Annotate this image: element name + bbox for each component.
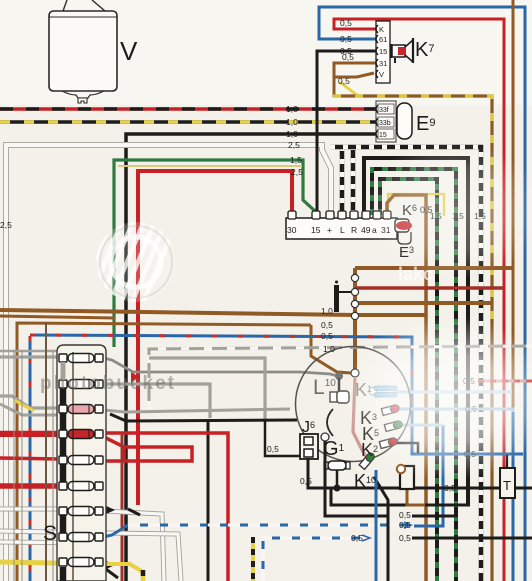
wire red feed to fuse 6	[0, 483, 60, 489]
fuse S8	[59, 533, 67, 541]
wire grey/white striped 1.0 across to right edge	[149, 346, 532, 409]
connector terminal 31	[383, 211, 391, 219]
svg-text:31: 31	[379, 59, 387, 68]
wire red/white dashed 0.5 at y381	[478, 380, 532, 383]
connector terminal +	[326, 211, 334, 219]
K7 pin K	[376, 25, 378, 33]
wire blue elbow from light blue drop	[414, 425, 443, 526]
lamp L10	[330, 392, 337, 402]
wire brown 0.5 branch right at y302	[355, 301, 492, 305]
wire grey horizontal from fuse 1 to x265 and down	[0, 350, 57, 353]
svg-text:T: T	[503, 478, 511, 493]
svg-text:2,5: 2,5	[288, 140, 300, 150]
cigarette lighter E9	[397, 103, 412, 139]
svg-text:0,5: 0,5	[399, 510, 411, 520]
junction on brown feed y304	[351, 300, 358, 307]
wire black diagonal from fuse 9	[103, 567, 118, 578]
fuse bus bar y438	[60, 438, 67, 456]
svg-text:0,5: 0,5	[340, 18, 352, 28]
wire light blue from lamp K1 to right	[396, 391, 512, 394]
wire black branch to terminal bar i	[338, 291, 355, 293]
wire yellow from fuse 9 right over to x253 and down	[104, 562, 130, 566]
fuse S4	[59, 430, 67, 438]
extra thin grey wires left edge	[13, 350, 15, 581]
wire green 1.5 to connector pin 15	[114, 160, 316, 347]
wire black 0.5 right segment y516	[412, 515, 458, 518]
warning lamp K7	[391, 38, 413, 63]
svg-text:0,5: 0,5	[399, 520, 411, 530]
fuse S6	[59, 482, 67, 490]
junction circle left of G1	[321, 433, 329, 441]
wire brown 0.5 from y325 down into cluster junction	[311, 325, 351, 373]
svg-text:0,5: 0,5	[321, 320, 333, 330]
fuse box S	[57, 345, 106, 581]
wire black/white striped from pin L to top edge	[340, 146, 345, 215]
indicator lamp K3	[381, 404, 400, 416]
wire white 2.5 horizontal to connector pin + and down left edge	[6, 145, 331, 581]
wire black from lamp K2 to blue wire	[396, 443, 418, 453]
wire red feed to fuse 5	[0, 458, 60, 459]
terminal connector near cluster	[400, 466, 414, 489]
E9 pin 33f	[376, 105, 378, 113]
wire grey from fuse 2 to x210 and down	[103, 384, 210, 418]
terminal bar i	[334, 285, 339, 312]
wire blue 0.5 from K7 pin 61 across top and down right edge	[319, 7, 525, 581]
wire red thick feed to fuse 4	[0, 431, 60, 436]
wire red from fuse 4 right diagonal and over to x230 down	[104, 433, 228, 581]
wire black from connector over to x470 down to junction	[364, 158, 468, 505]
wire grey with diagonal into fuse 1 from left	[0, 396, 60, 408]
wire brown short to left edge at y316	[0, 316, 115, 318]
fuse S2	[59, 380, 67, 388]
K7 pin 61	[376, 35, 378, 43]
svg-text:1,0: 1,0	[323, 344, 335, 354]
svg-text:1,0: 1,0	[286, 117, 298, 127]
wire brown 0.5 branch to right at y267	[355, 266, 513, 270]
E9 pin 33b	[376, 118, 378, 126]
wire brown 0.5 to left and down at x17	[17, 323, 311, 581]
wire black/white striped from pin R up to y147	[351, 147, 356, 215]
wire black vertical from grey junction down	[207, 419, 210, 581]
wire red 0.5 from K7 pin K across top	[334, 19, 504, 581]
wire blue vertical from K10 down	[375, 470, 378, 581]
connector terminal a	[373, 211, 381, 219]
speedometer cable arc	[327, 409, 333, 436]
wire blue/white striped rising at x263 over at y538	[263, 538, 368, 581]
svg-text:0,5: 0,5	[351, 533, 363, 543]
fuse box inner rails	[45, 322, 47, 581]
cluster circle instrument housing	[296, 347, 411, 462]
fuse S5	[59, 456, 67, 464]
wire black from junction circle down to y505 loop	[325, 441, 388, 516]
wire brown branch to right edge at y279	[355, 286, 504, 290]
fuse bus bar y567	[60, 567, 67, 581]
wire red/black 1.0 to E9 pin 33f	[0, 107, 378, 111]
K7 pin 31	[376, 59, 378, 67]
wire white feed to fuse 8 left	[0, 542, 104, 543]
svg-text:V: V	[379, 70, 384, 79]
wire grey stub and dot to lamp L10	[335, 372, 343, 380]
fuse bus bar y464	[60, 464, 67, 482]
gauge G1	[328, 461, 346, 470]
svg-text:0,5: 0,5	[300, 476, 312, 486]
wire black/green striped inner nest down	[380, 179, 437, 581]
wire black/yellow 1.0 to E9 pin 33b	[0, 120, 378, 124]
svg-text:33b: 33b	[379, 120, 391, 127]
wire light blue from lamp K5 to blue drop	[401, 424, 443, 427]
svg-text:K: K	[379, 25, 384, 34]
wire yellow diagonal into fuse 3	[14, 400, 34, 411]
svg-text:1,5: 1,5	[290, 155, 302, 165]
wire black 0.5 into cluster J6	[265, 419, 300, 456]
main connector strip 30 15 + L R 49a 31	[286, 218, 397, 239]
svg-text:2,5: 2,5	[291, 167, 303, 177]
connector terminal 49	[362, 211, 370, 219]
svg-text:0,5: 0,5	[267, 444, 279, 454]
wire white from fuse 7 right, down at x162	[0, 509, 164, 581]
svg-text:0,5: 0,5	[399, 533, 411, 543]
fuse bus bar y388	[60, 388, 67, 405]
indicator lamp K10	[359, 451, 376, 469]
watermark wash lower right	[343, 316, 532, 480]
wire grey 1.0 horizontal at y408 from x150 to cluster	[103, 409, 290, 412]
fuse bus bars	[61, 362, 66, 380]
svg-text:1,0: 1,0	[286, 104, 298, 114]
svg-text:33f: 33f	[379, 107, 389, 114]
wire brown 1.0 to left edge at y311	[0, 310, 426, 315]
fuse S1	[59, 354, 67, 362]
svg-text:30: 30	[287, 225, 297, 235]
svg-text:L: L	[340, 225, 345, 235]
wire pink washed brown into lamp column	[353, 377, 368, 460]
svg-text:+: +	[327, 225, 332, 235]
wire white from fuse area down at x177	[0, 531, 181, 581]
svg-text:0,5: 0,5	[338, 76, 350, 86]
svg-text:15: 15	[311, 225, 321, 235]
junction on brown feed y278	[351, 274, 358, 281]
lamp K6 with red lens	[395, 219, 412, 244]
wire yellow across bottom to fuse 9	[0, 562, 104, 564]
wire brown/yellow 0.5 striped down right side	[333, 96, 492, 330]
svg-text:V: V	[120, 36, 138, 66]
wire black from G1 down to dot and right	[336, 470, 339, 487]
svg-text:R: R	[351, 225, 357, 235]
wire dark red vertical x122	[121, 434, 124, 581]
connector terminal 15	[312, 211, 320, 219]
fuse S9	[59, 558, 67, 566]
wire blue/red striped 0.5 across page, down at x412, right at y454, down right side	[30, 335, 412, 450]
wire red 2.5 to connector pin 30	[138, 171, 292, 505]
svg-text:1,0: 1,0	[286, 129, 298, 139]
wire black horizontal at y420 to cluster edge	[110, 414, 297, 421]
brown junction ring	[397, 465, 405, 473]
wire black from K10 diagonal down to x388 and bottom	[374, 477, 388, 581]
indicator lamp K2	[379, 437, 398, 449]
svg-text:15: 15	[379, 47, 387, 56]
wire red loop from fuse 4 to fuse 5	[104, 437, 192, 461]
wire brown vertical from top edge at x514	[512, 0, 515, 408]
connector terminal L	[338, 211, 346, 219]
E9 pin 15	[376, 130, 378, 138]
svg-text:0,5: 0,5	[321, 331, 333, 341]
K7 pin V	[376, 70, 378, 78]
wire black 0.5 at y538 to right edge	[412, 537, 532, 540]
svg-text:0,5: 0,5	[342, 52, 354, 62]
connector terminal R	[350, 211, 358, 219]
wire yellow short nest above connector	[388, 194, 444, 216]
wire black 1.0 from E9 pin 15 down left side	[126, 134, 378, 581]
junction circle on cluster top	[351, 369, 359, 377]
arrowhead into 0,5	[404, 522, 411, 528]
connector E9 multi-pin plug	[376, 101, 396, 142]
wiper motor reservoir V	[49, 0, 117, 103]
wire brown stub from terminal T to brown vertical	[407, 489, 425, 505]
wire light blue 0.5 at y409 over and down right side	[400, 409, 513, 581]
svg-text:photobucket: photobucket	[40, 373, 176, 394]
wire brown 0.5 from K7 pin 31	[334, 63, 376, 97]
svg-text:2,5: 2,5	[0, 220, 12, 230]
wire yellow 0.5 to K7 pin V	[340, 82, 358, 96]
wire brown from pin 31 over and down at x427	[387, 195, 426, 581]
wire black/white striped horizontal y147 over to x482 and down	[330, 147, 481, 581]
wire black/green striped from pin 49a over and down	[372, 169, 456, 581]
indicator lamp K1 light blue	[369, 387, 377, 395]
fuse S3	[59, 405, 67, 413]
svg-text:0,5: 0,5	[340, 34, 352, 44]
terminal T at right	[506, 455, 508, 468]
svg-text:15: 15	[379, 132, 387, 139]
wire blue solid vertical from fusebox area	[29, 336, 32, 581]
relay J6 boxes	[300, 434, 318, 459]
connector K7 multi-pin plug	[376, 21, 390, 83]
indicator lamp K5	[384, 420, 403, 432]
fuse bus bar y515	[60, 515, 67, 533]
wire yellow/black striped dropping at x139	[128, 563, 143, 572]
junction on brown feed y292	[351, 288, 358, 295]
wire black 0.5 from K7 pin 15 down to connector pin 15	[317, 51, 376, 215]
svg-text:61: 61	[379, 35, 387, 44]
photobucket watermark circle logo	[52, 214, 180, 310]
svg-text:1,0: 1,0	[321, 306, 333, 316]
wire yellow-green trace along green	[118, 165, 302, 167]
junction on brown feed y316	[351, 312, 358, 319]
red branch arrow on red vertical	[131, 371, 138, 383]
fuse bus bar y413	[60, 413, 67, 430]
svg-text:S: S	[43, 522, 57, 545]
arrow marks on white wire	[128, 509, 140, 515]
svg-text:0,5: 0,5	[444, 483, 456, 493]
K7 pin 15	[376, 47, 378, 55]
wire grey branch down into cluster to L10	[104, 358, 338, 376]
wire blue/white striped from fuse 8 across page	[103, 525, 128, 537]
connector terminal 30	[288, 211, 296, 219]
wire brown vertical with junctions below connector	[353, 268, 357, 373]
fuse S7	[59, 507, 67, 515]
wire black 0.5 from J6 down and right at y488	[308, 458, 532, 488]
